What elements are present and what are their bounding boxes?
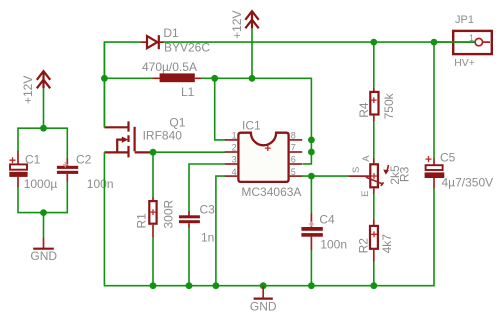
junction at (153,285.7) [150,282,157,289]
svg-text:8: 8 [291,131,296,141]
svg-text:1000µ: 1000µ [24,177,58,191]
junction at (263.2,285.7) [260,282,267,289]
capacitor C3 [179,202,215,285]
pin 5 [289,175,303,177]
svg-text:E: E [360,191,371,197]
pin 6 [289,163,303,165]
svg-text:C3: C3 [200,202,216,216]
wire R2 to bottom rail [373,261,375,286]
svg-text:R4: R4 [357,102,371,118]
resistor R1 [134,152,175,286]
svg-text:C4: C4 [319,212,335,226]
pin 2 [225,151,239,153]
svg-text:S: S [351,167,362,173]
wire pin5 node to R3 wiper [302,175,349,177]
pin 3 [225,163,239,165]
junction at (215.9,285.7) [213,282,220,289]
svg-text:L1: L1 [181,85,195,99]
svg-text:100n: 100n [87,177,114,191]
svg-text:MC34063A: MC34063A [241,185,301,199]
junction at (373.8,42.1) [370,39,377,46]
wire L1 rail left [104,77,152,79]
svg-text:GND: GND [30,249,57,263]
ground symbol GND (left) [30,238,57,263]
svg-text:470µ/0.5A: 470µ/0.5A [142,60,197,74]
svg-text:C2: C2 [76,153,92,167]
wire C5 to bottom rail [104,188,434,285]
junction at (189,285.7) [186,282,193,289]
wire GND drop (left) [43,213,45,238]
wire gate node to pin 2 [153,151,226,153]
svg-text:300R: 300R [161,199,175,228]
drain line [104,126,128,128]
svg-text:5: 5 [291,167,296,177]
svg-text:4µ7/350V: 4µ7/350V [442,176,494,190]
wire pin3 to C3 [189,164,226,212]
junction at (43.5,212.6) [40,209,47,216]
wire +12V left down to C1/C2 rail [43,88,45,128]
svg-text:6: 6 [291,155,296,165]
svg-text:4: 4 [232,167,237,177]
gate bar [134,127,136,152]
wire L1 rail right to IC corner [201,78,311,164]
wire C1/C2 top rail [18,128,67,159]
transistor Q1 IRF840 [104,115,185,157]
svg-text:IRF840: IRF840 [143,128,183,142]
diode D1 [141,26,211,55]
svg-text:IC1: IC1 [242,119,261,133]
junction at (104.4,78.3) [101,75,108,82]
wire C1/C2 bottom rail [18,181,67,213]
pin 7 [289,151,303,153]
svg-text:C1: C1 [25,153,41,167]
wire pin4 to bottom rail [216,176,226,286]
source line [104,151,128,153]
resistor R4 [357,88,396,122]
channel dashed bar [127,121,129,157]
wire R3 to R2 [373,194,375,220]
svg-text:1n: 1n [201,231,214,245]
inductor L1 [142,60,202,99]
svg-text:C5: C5 [440,150,456,164]
svg-text:GND: GND [250,300,277,314]
svg-text:JP1: JP1 [455,14,474,26]
wire +12V top down to L1 rail [251,28,253,78]
capacitor C5 [425,150,494,189]
wire C4 to bottom rail [310,250,312,286]
junction at (311.4,176.1) [308,173,315,180]
op-amp / converter IC1 MC34063A [225,119,302,199]
junction at (43.5,128.2) [40,125,47,132]
junction at (373.8,285.7) [370,282,377,289]
wire C4 column [310,176,312,214]
junction at (311.4,139.9) [308,137,315,144]
junction at (434,42.1) [431,39,438,46]
supply symbol +12V (left) [21,71,50,104]
wire into JP1 pin [434,41,475,43]
pin 8 [289,139,303,141]
wire top net: D1 anode side, from left vertical [104,42,140,127]
svg-text:4k7: 4k7 [380,234,394,254]
substrate arrow [117,140,122,153]
wire top net: D1 cathode to JP1 [164,41,475,43]
potentiometer R3 [349,155,412,197]
wire pin1 from L1 rail [215,78,226,140]
connector JP1 [453,14,492,69]
svg-text:R1: R1 [134,213,148,229]
capacitor C1 [9,151,57,191]
svg-text:R3: R3 [397,166,411,182]
svg-text:D1: D1 [163,26,179,40]
junction at (214.7,78.3) [211,75,218,82]
capacitor C4 [301,212,347,251]
svg-text:R2: R2 [357,238,371,254]
junction at (311.4,152) [308,149,315,156]
svg-text:+12V: +12V [21,76,35,104]
wire Q1 source down to bottom rail [103,152,105,285]
supply symbol +12V (top) [230,11,259,39]
wire Q1 drain up [103,42,105,127]
svg-text:+12V: +12V [230,11,244,39]
junction at (252,78.3) [249,75,256,82]
wire R4 column top [373,42,375,88]
pin 1 [225,139,239,141]
ground symbol GND (center) [250,287,277,314]
wire R4 to R3 [373,121,375,159]
wire C5 column top [433,42,435,159]
svg-text:Q1: Q1 [169,115,185,129]
svg-text:1: 1 [232,131,237,141]
gate lead [135,151,153,153]
svg-text:HV+: HV+ [454,57,475,69]
svg-text:7: 7 [291,143,296,153]
resistor R2 [357,220,394,262]
junction at (153,152.2) gate node [150,149,157,156]
svg-text:750k: 750k [382,92,396,119]
svg-text:3: 3 [232,155,237,165]
svg-text:2: 2 [232,143,237,153]
svg-text:A: A [361,155,372,162]
capacitor C2 [57,153,114,191]
junction at (311.4,285.7) [308,282,315,289]
svg-text:100n: 100n [320,238,347,252]
pin 4 [225,175,239,177]
